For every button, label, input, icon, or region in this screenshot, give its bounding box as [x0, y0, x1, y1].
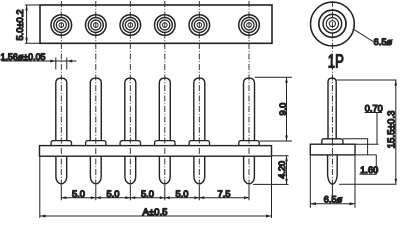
centerline pin 5: [198, 1, 200, 185]
front view pin 6 collar: [239, 141, 259, 146]
front view pin 3 upper shaft: [125, 78, 136, 141]
svg-text:15.5±0.3: 15.5±0.3: [386, 110, 397, 148]
front view pin 5 collar: [189, 141, 209, 146]
dimension 15.5±0.3 bottom extension: [339, 183, 397, 185]
pin pitch arrows: [61, 196, 249, 199]
side view bar edge extensions down: [310, 155, 355, 208]
centerline pin 2: [95, 1, 97, 185]
svg-text:5.0: 5.0: [106, 188, 119, 199]
pin 2 top-view concentric circles: [86, 15, 107, 36]
dimension 6.5ø (side) arrows: [310, 202, 355, 205]
svg-text:9.0: 9.0: [278, 103, 288, 116]
dimension 9.0 arrows: [285, 77, 288, 141]
svg-text:A±0.5: A±0.5: [143, 206, 168, 217]
dimension 9.0 line: [286, 77, 288, 141]
dimension 4.20 line: [286, 156, 288, 185]
front view pin 4 upper shaft: [159, 78, 170, 141]
dimension 1.56 arrows: [50, 60, 72, 63]
dimension 5.0±0.2 line: [26, 5, 28, 43]
pin 6 top-view concentric circles: [239, 15, 260, 36]
svg-text:5.0±0.2: 5.0±0.2: [15, 10, 25, 41]
side view housing bar: [310, 144, 355, 155]
front view pin 5 upper shaft: [194, 78, 205, 141]
dimension 6.5ø (side) line: [310, 203, 355, 205]
svg-text:5.0: 5.0: [141, 188, 154, 199]
dimension 4.20 extension lines: [253, 156, 289, 185]
front view pin 1 upper shaft: [56, 78, 67, 141]
dimension 0.70 vertical leader: [376, 113, 378, 145]
side view pin lower shaft with tip: [328, 155, 338, 184]
dimension 5.0±0.2 extension lines: [25, 5, 41, 43]
bar bottom extension line: [355, 154, 377, 156]
front view pin 4 collar: [155, 141, 175, 146]
dimension 15.5±0.3 arrows: [395, 80, 398, 184]
front view pin 6 lower shaft with tip: [244, 156, 255, 184]
front view pin 1 lower shaft with tip: [56, 156, 67, 184]
dimension A±0.5 arrows: [40, 215, 272, 218]
svg-text:4.20: 4.20: [277, 161, 287, 179]
front view housing bar: [40, 146, 272, 157]
centerline pin 4: [164, 1, 166, 185]
side view centerline: [331, 1, 333, 185]
dimension A±0.5 line: [40, 215, 272, 217]
svg-text:5.0: 5.0: [72, 188, 85, 199]
pin 5 top-view concentric circles: [189, 15, 210, 36]
front view pin 6 upper shaft: [244, 78, 255, 141]
front view pin 2 collar: [86, 141, 106, 146]
side view pin upper shaft: [328, 78, 336, 139]
1P pin end view concentric circles: [311, 2, 355, 46]
centerline pin 3: [129, 1, 131, 185]
pin 4 top-view concentric circles: [155, 15, 176, 36]
svg-text:6.5ø: 6.5ø: [324, 193, 343, 204]
dimension 1.60 vertical leader: [375, 155, 377, 174]
top view housing rectangle: [40, 5, 272, 43]
collar top extension line: [343, 138, 368, 140]
front view pin 3 lower shaft with tip: [125, 156, 136, 184]
svg-text:1P: 1P: [328, 51, 344, 71]
dimension 4.20 arrows: [285, 156, 288, 185]
dimension 1.56 line: [2, 60, 77, 62]
svg-text:7.5: 7.5: [217, 188, 230, 199]
dimension 15.5±0.3 top extension: [337, 79, 397, 81]
pin 1 top-view concentric circles: [51, 15, 72, 36]
dimension A±0.5 right extension: [271, 156, 273, 218]
dimension 5.0±0.2 arrows: [25, 5, 28, 43]
side view tick below tip: [331, 185, 333, 202]
side view pin collar: [322, 139, 343, 144]
pin 3 top-view concentric circles: [120, 15, 141, 36]
leader line 6.5ø (1P): [353, 29, 373, 42]
dimension 0.70 leader underline: [365, 112, 382, 114]
pin pitch dimension line: [61, 197, 249, 199]
dimension 15.5±0.3 line: [395, 80, 397, 184]
bar top extension line: [355, 143, 379, 145]
front view pin 2 lower shaft with tip: [90, 156, 101, 184]
vertical tie collar-to-barbottom: [367, 139, 369, 155]
front view pin 2 upper shaft: [90, 78, 101, 141]
dimension 1.56 extension stubs: [56, 58, 67, 70]
dimension 1.60 leader underline: [360, 173, 377, 175]
centerline pin 1: [60, 1, 62, 185]
svg-text:6.5ø: 6.5ø: [374, 36, 393, 47]
dimension A±0.5 left extension (slanted): [39, 156, 41, 218]
front view pin 1 collar: [51, 141, 71, 146]
centerline pin 6: [248, 1, 250, 185]
front view pin 4 lower shaft with tip: [159, 156, 170, 184]
dimension 9.0 extension lines: [255, 77, 292, 141]
front view pin 3 collar: [120, 141, 140, 146]
svg-text:5.0: 5.0: [175, 188, 188, 199]
front view pin 5 lower shaft with tip: [194, 156, 205, 184]
pin pitch dimension ticks: [61, 185, 249, 200]
